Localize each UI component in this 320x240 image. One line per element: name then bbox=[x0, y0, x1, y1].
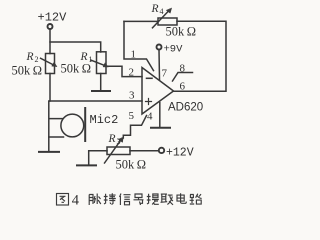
label R1 bbox=[80, 51, 93, 64]
svg-text:3: 3 bbox=[129, 90, 135, 102]
+12V supply terminal (top left) bbox=[48, 24, 53, 29]
label R2 bbox=[26, 51, 39, 64]
svg-text:1: 1 bbox=[131, 49, 137, 61]
svg-text:+9V: +9V bbox=[164, 44, 184, 56]
svg-text:8: 8 bbox=[180, 63, 186, 75]
svg-text:4: 4 bbox=[72, 193, 80, 209]
resistor R4 (potentiometer, gain) bbox=[124, 8, 177, 28]
svg-text:+12V: +12V bbox=[38, 11, 68, 25]
label R3 bbox=[108, 133, 121, 146]
wire: R4 right, down right edge to output bbox=[174, 21, 227, 91]
resistor R1 (potentiometer) bbox=[91, 52, 108, 74]
svg-text:3: 3 bbox=[117, 137, 121, 146]
svg-text:4: 4 bbox=[160, 7, 164, 16]
glyph 号 bbox=[134, 194, 144, 205]
svg-text:50k Ω: 50k Ω bbox=[12, 64, 43, 78]
glyph 信 bbox=[120, 194, 131, 206]
wire: R2 bottom to +input node bbox=[49, 74, 51, 102]
pin 5 wire to R3 wiper bbox=[123, 116, 146, 139]
pin 4 wire bbox=[159, 103, 161, 127]
wire: +12V down to R2 top bbox=[49, 29, 51, 53]
glyph 提 bbox=[147, 194, 159, 205]
svg-text:R: R bbox=[26, 51, 34, 63]
wire: R3 right to +12V terminal bbox=[130, 150, 158, 152]
caption 图4 脉搏信号提取电路 (drawn glyphs) bbox=[57, 193, 202, 209]
op-amp U1 AD620 bbox=[142, 68, 174, 115]
+12V terminal (right) bbox=[159, 148, 164, 153]
wire: pin 1 up to R4 left bbox=[124, 21, 154, 70]
svg-text:50k Ω: 50k Ω bbox=[61, 62, 92, 76]
svg-text:5: 5 bbox=[129, 110, 135, 122]
wire: +9V to pin 7 bbox=[158, 50, 161, 80]
svg-text:50k Ω: 50k Ω bbox=[116, 158, 147, 172]
glyph 取 bbox=[161, 194, 174, 205]
glyph 电 bbox=[177, 193, 186, 203]
ground (below R1) bbox=[92, 74, 110, 92]
svg-text:Mic2: Mic2 bbox=[90, 113, 119, 127]
svg-text:50k Ω: 50k Ω bbox=[166, 25, 197, 39]
+9V terminal bbox=[157, 45, 162, 50]
glyph 图 bbox=[57, 194, 69, 206]
ground (op-amp pin 4) bbox=[151, 127, 170, 129]
label R4 bbox=[151, 3, 164, 16]
svg-text:AD620: AD620 bbox=[168, 102, 203, 114]
glyph 路 bbox=[190, 194, 202, 204]
glyph 搏 bbox=[104, 193, 116, 204]
microphone Mic2 bbox=[49, 101, 85, 151]
svg-text:2: 2 bbox=[129, 67, 135, 79]
ground (R3 left) bbox=[77, 164, 96, 166]
resistor R3 (potentiometer) bbox=[105, 137, 131, 163]
wire: branch to R1 top bbox=[50, 42, 101, 52]
wire: R1 wiper to op-amp pin 2 bbox=[108, 66, 142, 76]
wire: node to op-amp pin 3 bbox=[50, 100, 142, 102]
svg-text:R: R bbox=[151, 3, 159, 15]
svg-text:4: 4 bbox=[147, 111, 153, 123]
ground (mic) bbox=[39, 151, 59, 153]
svg-text:7: 7 bbox=[162, 68, 168, 80]
wire: R3 left to ground bbox=[89, 151, 107, 165]
glyph 脉 bbox=[89, 194, 101, 206]
resistor R2 (potentiometer) bbox=[41, 54, 57, 74]
svg-text:6: 6 bbox=[180, 81, 186, 93]
svg-text:+12V: +12V bbox=[166, 147, 194, 160]
svg-text:R: R bbox=[108, 133, 116, 145]
pin 8 stub bbox=[173, 73, 193, 82]
